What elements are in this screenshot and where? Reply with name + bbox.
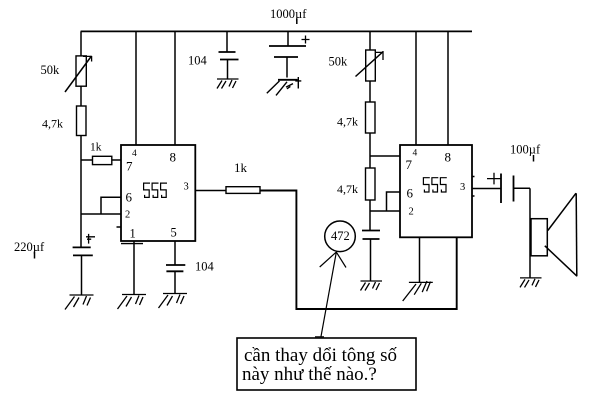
label tick under 100uf	[533, 155, 535, 162]
wire left rail R2 down to C1	[80, 136, 82, 248]
ground under C2	[159, 294, 188, 309]
wire C2 to ground	[174, 271, 176, 294]
capacitor C4 1000uf	[269, 46, 306, 57]
wire U2 pin2 to rail	[370, 210, 400, 212]
wire U1 pin1 to ground	[133, 241, 135, 295]
wire rail to C3	[226, 31, 228, 52]
svg-text:4,7k: 4,7k	[42, 117, 63, 131]
label 555 (U2)	[423, 178, 446, 192]
wire U2 pin1 to ground	[419, 237, 421, 282]
svg-text:2: 2	[409, 207, 414, 218]
wire C1 to ground	[81, 255, 83, 295]
svg-text:3: 3	[460, 182, 465, 193]
wire R3 to U1 pin7	[113, 159, 122, 161]
wire R6 to junction	[369, 200, 371, 231]
wire U1 pin1 tick	[117, 226, 122, 228]
op-amp U2 555 timer box	[400, 145, 472, 237]
wire rail to U1 pin4	[135, 31, 137, 145]
svg-text:8: 8	[445, 150, 452, 165]
wire C5 to ground	[370, 239, 372, 281]
svg-text:472: 472	[331, 229, 350, 243]
svg-text:4: 4	[132, 149, 137, 159]
wire U2 pin6 loop	[387, 192, 401, 211]
wire rail to C4	[287, 31, 289, 46]
svg-text:1: 1	[130, 227, 136, 241]
capacitor C4 1000uf plus sign	[302, 36, 310, 44]
svg-text:100µf: 100µf	[510, 143, 541, 157]
svg-text:4: 4	[413, 149, 418, 159]
svg-text:50k: 50k	[329, 55, 349, 69]
svg-text:8: 8	[170, 150, 177, 165]
wire C6 to speaker	[514, 187, 531, 189]
ground under C1	[65, 295, 94, 310]
resistor R4 50k potentiometer	[356, 50, 384, 81]
svg-text:2: 2	[125, 210, 130, 221]
svg-text:5: 5	[171, 226, 177, 240]
wire R5 to R6	[369, 133, 371, 168]
wire tap to R3	[81, 159, 93, 161]
wire R4 to R5	[369, 82, 371, 103]
svg-text:50k: 50k	[41, 63, 61, 77]
wire U2 pin3 output	[472, 188, 501, 190]
svg-text:1k: 1k	[90, 142, 102, 154]
svg-text:7: 7	[406, 157, 413, 172]
svg-text:7: 7	[126, 159, 133, 174]
capacitor C6 100uf	[501, 174, 514, 204]
wire R7 to U2 pin5 long run	[260, 191, 457, 310]
wire U1 pin6 loop	[101, 197, 121, 214]
ground under C3	[217, 79, 239, 89]
wire rail to U2 pin4	[415, 31, 417, 145]
label tick under 1000uf	[296, 19, 298, 25]
svg-text:104: 104	[188, 54, 208, 68]
wire U1 bottom edge overlap stroke	[121, 243, 143, 245]
label tick under 220uf	[34, 252, 36, 259]
wire U1 pin3 to R7	[195, 190, 226, 192]
wire rail to U1 pin8	[174, 31, 176, 145]
wire U1 pin2 to left rail	[81, 213, 121, 215]
resistor R3 1k	[93, 156, 112, 164]
wire leader line balloon to note box	[315, 252, 336, 336]
wire top supply rail	[81, 30, 472, 32]
svg-text:220µf: 220µf	[14, 240, 45, 254]
ground under U1 pin1	[118, 295, 147, 310]
svg-text:6: 6	[126, 190, 133, 205]
svg-text:1k: 1k	[234, 160, 248, 175]
wire U1 pin5 to C2	[174, 241, 176, 265]
svg-text:1000µf: 1000µf	[270, 7, 307, 21]
resistor R7 1k	[226, 187, 260, 194]
capacitor C3 104	[219, 52, 239, 60]
wire rail to U2 pin8	[447, 31, 449, 145]
capacitor C2 104	[166, 265, 185, 271]
svg-text:4,7k: 4,7k	[337, 115, 358, 129]
svg-text:104: 104	[195, 260, 215, 274]
resistor R2 4.7k	[77, 106, 87, 136]
capacitor C1 220uf	[73, 247, 93, 255]
resistor R5 4.7k	[366, 102, 376, 133]
arrowhead under balloon	[320, 252, 346, 268]
svg-text:này như thế nào.?: này như thế nào.?	[242, 364, 377, 385]
resistor R1 50k potentiometer	[65, 56, 92, 92]
svg-text:3: 3	[184, 182, 189, 193]
label 555 (U1)	[144, 183, 167, 197]
svg-text:4,7k: 4,7k	[337, 182, 358, 196]
op-amp U1 555 timer box	[121, 145, 195, 241]
note box border	[237, 338, 416, 390]
resistor R6 4.7k	[366, 168, 376, 200]
ground under speaker	[520, 278, 542, 288]
wire rail to pot R4	[369, 31, 371, 50]
capacitor C1 220uf plus sign	[86, 234, 95, 244]
wire C3 to ground	[227, 60, 229, 80]
wire U2 right edge tick upper	[472, 176, 475, 178]
ground under C5	[361, 281, 383, 291]
wire R1 to R2	[80, 87, 82, 107]
ground under C4 messy	[267, 77, 302, 95]
wire U2 right edge tick lower	[472, 195, 475, 197]
wire junction to U2 pin7	[370, 155, 400, 157]
wire C4 to ground	[286, 57, 288, 78]
node 472 balloon circle	[325, 221, 356, 252]
speaker LS1	[530, 188, 577, 277]
svg-text:6: 6	[407, 186, 414, 201]
ground under U2 long hatches	[403, 281, 433, 301]
capacitor C6 100uf plus sign	[487, 173, 501, 185]
wire left rail top to pot R1	[80, 31, 82, 56]
capacitor C5 472	[362, 231, 380, 240]
